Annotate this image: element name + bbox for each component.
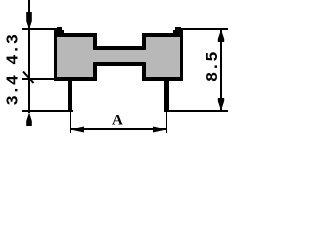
body left block top edge: [57, 33, 97, 37]
body right block gray: [146, 37, 180, 77]
body left block tab: [57, 27, 62, 33]
body right block top edge: [142, 33, 183, 37]
top-right extension line: [181, 28, 228, 30]
svg-text:A: A: [112, 113, 123, 129]
right lead: [164, 77, 169, 112]
bar top edge: [93, 46, 146, 50]
right lead extension (thin): [166, 112, 167, 133]
A dimension line: [71, 128, 166, 130]
left dimension line: [28, 0, 30, 113]
A right arrow: [153, 127, 167, 133]
bottom-right extension line: [164, 110, 228, 112]
bottom-left extension line: [22, 110, 73, 112]
top arrow (down) of left dimension: [26, 12, 32, 30]
right dimension line: [220, 29, 222, 110]
body left block right edge: [93, 33, 97, 50]
middle-left extension line: [22, 78, 57, 80]
body right block bottom edge: [142, 77, 183, 81]
right bottom arrow (down): [218, 98, 224, 111]
body right block left edge: [142, 33, 146, 50]
A left arrow: [71, 127, 85, 133]
left lead: [68, 77, 72, 112]
slash tick at middle extension: [23, 72, 34, 84]
body left block bottom edge: [54, 77, 97, 81]
body right block tab: [175, 27, 181, 33]
svg-text:3.4 4.3: 3.4 4.3: [5, 34, 24, 105]
top-left extension line: [22, 28, 58, 30]
bar gray: [93, 50, 146, 62]
right top arrow (up): [218, 30, 224, 43]
bar bottom edge: [93, 62, 146, 66]
body right block right edge: [180, 28, 183, 81]
bottom arrow (up) of left dimension: [26, 113, 32, 127]
body left block gray: [57, 37, 93, 77]
white side rectangle right edge / body left edge: [54, 28, 57, 81]
left lead extension (thin): [70, 112, 71, 133]
svg-text:8.5: 8.5: [204, 51, 223, 82]
